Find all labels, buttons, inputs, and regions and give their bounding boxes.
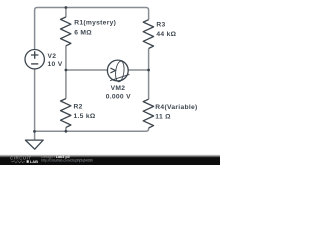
node junction dot R2 bottom [65, 130, 68, 133]
wire V2 bottom to ground node [34, 69, 36, 131]
node junction dot right of voltmeter [147, 69, 150, 72]
ground triangle [25, 140, 43, 149]
resistor R1 zigzag [61, 17, 71, 46]
node junction dot top (R1 / top rail) [65, 6, 68, 9]
node junction dot ground [33, 130, 36, 133]
V2 plus sign [31, 51, 38, 58]
VM2 needle [110, 74, 130, 80]
wire top rail: R1 junction to R3 top lead [66, 8, 149, 20]
svg-text:CIRCUIT: CIRCUIT [10, 156, 32, 161]
svg-text:44 kΩ: 44 kΩ [156, 31, 176, 38]
svg-text:R1(mystery): R1(mystery) [74, 19, 116, 26]
svg-text:6 MΩ: 6 MΩ [74, 29, 92, 36]
svg-text:11 Ω: 11 Ω [155, 114, 171, 121]
footer logo LAB mark [27, 160, 29, 163]
wire bottom rail: ground node to R4 bottom corner [35, 128, 149, 131]
svg-text:R4(Variable): R4(Variable) [155, 104, 197, 111]
footer logo resistor zigzag [11, 161, 25, 164]
svg-text:1.5 kΩ: 1.5 kΩ [74, 113, 96, 120]
V2 minus sign [31, 63, 38, 65]
svg-text:LAB: LAB [30, 159, 38, 164]
svg-text:R2: R2 [74, 104, 83, 111]
wire voltmeter left lead [66, 69, 108, 71]
VM2 gauge dial ellipse [114, 61, 125, 83]
wire middle branch: VM node to R2 top [65, 70, 67, 99]
svg-text:VM2: VM2 [111, 85, 126, 92]
wire R2 bottom lead [65, 127, 67, 131]
wire right branch: VM node to R4 top [148, 70, 150, 99]
voltage source V2 circle [25, 50, 44, 69]
resistor R2 zigzag [61, 99, 71, 128]
wire voltmeter right lead [128, 69, 148, 71]
resistor R3 zigzag [143, 20, 153, 49]
svg-text:R3: R3 [156, 21, 165, 28]
VM2 polarity mark > [110, 68, 115, 73]
svg-text:V2: V2 [48, 53, 57, 60]
ground stub wire [34, 131, 36, 140]
wire left branch top: V2 top up to top rail [35, 8, 66, 50]
node junction dot left of voltmeter [65, 69, 68, 72]
wire right branch: R3 bottom to VM node [148, 49, 150, 71]
wire R1 top lead [65, 8, 67, 18]
svg-text:0.000 V: 0.000 V [106, 94, 131, 101]
svg-text:http://circuitlab.com/c6q3hj5q: http://circuitlab.com/c6q3hj5q6428b [41, 159, 93, 163]
resistor R4 zigzag [143, 99, 153, 128]
voltmeter VM2 circle [107, 60, 128, 81]
svg-text:10 V: 10 V [48, 61, 63, 68]
wire middle branch: R1 bottom to VM node [65, 46, 67, 70]
